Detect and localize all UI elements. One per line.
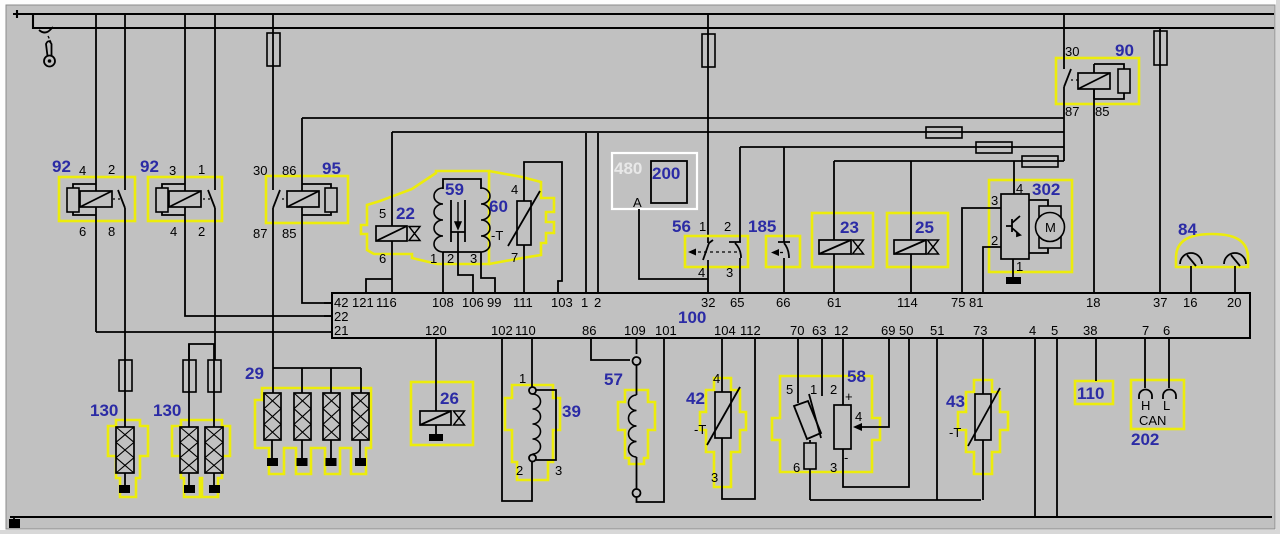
svg-text:3: 3 — [711, 470, 718, 485]
svg-text:4: 4 — [170, 224, 177, 239]
svg-text:86: 86 — [582, 323, 596, 338]
component 42 highlight — [700, 378, 746, 487]
svg-text:3: 3 — [169, 163, 176, 178]
svg-text:56: 56 — [672, 217, 691, 236]
relay 92 (second) highlight — [148, 177, 222, 221]
84 lamp 1 — [1180, 253, 1202, 264]
wire 302 pin2 from ECU pin81 — [983, 247, 1001, 293]
39 coil — [533, 394, 541, 454]
wire 22 feed from rail B — [391, 132, 393, 226]
wire bus 15 (ignition) — [33, 14, 1274, 28]
component 202 highlight — [1131, 380, 1184, 429]
wire jumper to ECU pin 121 — [366, 279, 392, 293]
svg-text:-: - — [844, 450, 848, 465]
svg-text:6: 6 — [79, 224, 86, 239]
svg-text:12: 12 — [834, 323, 848, 338]
wire 43 to ground line — [982, 440, 984, 500]
svg-text:92: 92 — [140, 157, 159, 176]
ECU 100 box — [332, 293, 1250, 338]
58 wiper2 arrow from ECU pin69 — [862, 338, 889, 427]
svg-text:-T: -T — [949, 425, 961, 440]
component group 22/59/60 highlight — [361, 171, 489, 264]
svg-text:38: 38 — [1083, 323, 1097, 338]
wire ECU pin5 to ground bus — [1056, 338, 1058, 517]
wire ECU pin4 to ground bus — [1034, 338, 1036, 517]
connector 200 box — [651, 161, 687, 203]
wire 42 to ECU pin112 — [722, 338, 755, 499]
57 bottom terminal — [633, 489, 641, 497]
svg-text:87: 87 — [1065, 104, 1079, 119]
wire 58 pin6 to ground line — [809, 469, 811, 500]
wire manifold of 29 — [273, 368, 361, 393]
svg-text:37: 37 — [1153, 295, 1167, 310]
svg-text:65: 65 — [730, 295, 744, 310]
wire ECU pin120 to 26 — [435, 338, 437, 411]
svg-text:43: 43 — [946, 392, 965, 411]
svg-text:75: 75 — [951, 295, 965, 310]
CAN L socket — [1163, 390, 1176, 399]
svg-text:2: 2 — [108, 162, 115, 177]
svg-text:4: 4 — [713, 371, 720, 386]
svg-text:4: 4 — [1016, 181, 1023, 196]
wire relay92b switch out pin2 — [214, 208, 216, 344]
relay 90 highlight — [1056, 58, 1139, 104]
ground at 302 — [1006, 277, 1021, 284]
svg-text:1: 1 — [430, 251, 437, 266]
wire split to both plugs — [189, 344, 215, 360]
wire 59 pin3 to ECU pin99 — [481, 252, 495, 293]
302 motor — [1029, 200, 1048, 253]
svg-text:18: 18 — [1086, 295, 1100, 310]
component 130 second highlight — [172, 420, 230, 497]
svg-text:50: 50 — [899, 323, 913, 338]
relay 92a switch contact — [118, 190, 125, 208]
svg-text:M: M — [1045, 220, 1056, 235]
wire 56 pin3 to ECU pin65 — [739, 258, 741, 293]
wire ECU pin109 to 57 top terminal — [636, 338, 638, 354]
relay 95 switch contact — [273, 190, 280, 208]
wire relay92a switch out pin8 — [124, 208, 126, 360]
component 39 highlight — [505, 385, 560, 480]
svg-text:84: 84 — [1178, 220, 1197, 239]
svg-text:42: 42 — [334, 295, 348, 310]
component 25 highlight — [887, 213, 948, 267]
wire sensor ground line to ECU pin51 — [810, 338, 981, 500]
battery plus terminal — [13, 10, 21, 18]
svg-text:73: 73 — [973, 323, 987, 338]
wire 59 pin2 to ECU pin106 — [458, 232, 473, 293]
svg-text:86: 86 — [282, 163, 296, 178]
26 ground — [435, 425, 437, 435]
svg-text:95: 95 — [322, 159, 341, 178]
svg-text:8: 8 — [108, 224, 115, 239]
svg-text:2: 2 — [516, 463, 523, 478]
svg-text:90: 90 — [1115, 41, 1134, 60]
component 29 highlight — [255, 388, 371, 474]
fuse to 130 first — [124, 360, 126, 427]
svg-text:2: 2 — [594, 295, 601, 310]
wire 23 to ECU pin61 — [833, 254, 835, 293]
29 grounds — [272, 440, 360, 459]
wire 57 bottom to ECU pin101 — [637, 338, 665, 502]
svg-text:200: 200 — [652, 164, 680, 183]
56 mechanical link arrow — [688, 249, 696, 256]
connector 480 box — [612, 153, 697, 209]
svg-text:302: 302 — [1032, 180, 1060, 199]
svg-text:69: 69 — [881, 323, 895, 338]
wire rail C (to 56/185) with fuse — [740, 146, 1064, 148]
svg-text:2: 2 — [724, 219, 731, 234]
wire node A to 56/ECU pin32 — [639, 209, 708, 279]
svg-text:51: 51 — [930, 323, 944, 338]
svg-text:1: 1 — [810, 382, 817, 397]
svg-text:6: 6 — [793, 460, 800, 475]
wire relay95 switch out pin87 to glow plugs — [272, 208, 274, 368]
wire 58 pin3 to ECU pin50 — [843, 338, 909, 487]
svg-text:1: 1 — [699, 219, 706, 234]
wire 25 to ECU pin114 — [910, 254, 912, 293]
wire ECU pin63 to 58 pin1 — [821, 338, 823, 396]
svg-text:21: 21 — [334, 323, 348, 338]
svg-text:4: 4 — [79, 163, 86, 178]
svg-text:63: 63 — [812, 323, 826, 338]
56 second contact — [729, 242, 741, 258]
185 switch contact — [778, 242, 790, 258]
svg-text:16: 16 — [1183, 295, 1197, 310]
component 59 windings — [443, 179, 481, 252]
svg-text:87: 87 — [253, 226, 267, 241]
wire rail A (to relay95 coil) — [302, 117, 1064, 119]
wire ECU pin110 to 39 pin1 — [531, 338, 533, 387]
component 302 highlight — [989, 180, 1072, 272]
ECU left stubs pins 42/22 — [324, 303, 332, 316]
relay 95 coil — [287, 191, 319, 207]
29 heater elements — [264, 393, 281, 440]
ground terminal bottom left — [9, 519, 20, 528]
svg-text:H: H — [1141, 398, 1150, 413]
svg-text:1: 1 — [581, 295, 588, 310]
wire relay90 pin87 down to feed rails — [1063, 87, 1065, 161]
wire 25 feed from rail D — [910, 161, 912, 240]
svg-text:3: 3 — [555, 463, 562, 478]
component 43 resistor — [975, 394, 991, 440]
svg-text:109: 109 — [624, 323, 646, 338]
svg-text:110: 110 — [1077, 384, 1104, 403]
component 110 highlight — [1075, 381, 1113, 404]
wire 302 pin4 from rail D — [1013, 161, 1015, 194]
svg-text:61: 61 — [827, 295, 841, 310]
component 84 highlight dome — [1176, 234, 1248, 267]
wire ECU pin38 to 110 — [1095, 338, 1097, 381]
relay 90 switch contact — [1064, 69, 1071, 87]
svg-text:70: 70 — [790, 323, 804, 338]
wire relay95 coil pin86 from rail — [301, 118, 303, 191]
svg-text:7: 7 — [511, 250, 518, 265]
svg-text:85: 85 — [1095, 104, 1109, 119]
svg-text:100: 100 — [678, 308, 706, 327]
130 second grounds — [189, 473, 214, 486]
svg-text:7: 7 — [1142, 323, 1149, 338]
component 43 highlight — [958, 380, 1008, 474]
ignition key switch — [39, 27, 55, 67]
svg-text:92: 92 — [52, 157, 71, 176]
svg-text:3: 3 — [470, 251, 477, 266]
svg-text:6: 6 — [379, 251, 386, 266]
component 130 first highlight — [108, 420, 148, 497]
svg-text:120: 120 — [425, 323, 447, 338]
svg-text:2: 2 — [991, 233, 998, 248]
relay 92a suppression resistor — [73, 184, 96, 215]
svg-text:57: 57 — [604, 370, 623, 389]
wire ECU pin86 to 57 top — [591, 338, 630, 360]
svg-text:99: 99 — [487, 295, 501, 310]
svg-text:110: 110 — [515, 323, 536, 338]
wire relay92a coil to bus pin6 — [95, 207, 97, 332]
svg-text:39: 39 — [562, 402, 581, 421]
58 wiper — [809, 394, 821, 438]
svg-text:130: 130 — [153, 401, 181, 420]
wire 185 to ECU pin66 — [783, 258, 785, 293]
svg-text:26: 26 — [440, 389, 459, 408]
component 56 highlight — [685, 236, 748, 267]
wire 185 feed from rail C — [783, 147, 785, 242]
svg-text:130: 130 — [90, 401, 118, 420]
svg-text:480: 480 — [614, 159, 642, 178]
svg-text:4: 4 — [855, 409, 862, 424]
relay 92 (first) highlight — [59, 177, 135, 221]
svg-text:59: 59 — [445, 180, 464, 199]
wire 84 lamp1 to ECU pin16 — [1190, 266, 1192, 293]
component 23 highlight — [812, 213, 873, 267]
svg-text:85: 85 — [282, 226, 296, 241]
svg-text:81: 81 — [969, 295, 983, 310]
svg-text:-T: -T — [491, 228, 503, 243]
130 first heater element — [116, 427, 134, 473]
svg-text:3: 3 — [991, 193, 998, 208]
svg-text:101: 101 — [655, 323, 677, 338]
svg-text:6: 6 — [1163, 323, 1170, 338]
84 lamp 2 — [1224, 253, 1246, 264]
svg-text:25: 25 — [915, 218, 934, 237]
component 57 highlight — [618, 390, 655, 464]
svg-text:108: 108 — [432, 295, 454, 310]
wire ECU pin73 to 43 — [982, 338, 984, 394]
58 series resistor pin6 — [809, 440, 811, 443]
59 core and arrow — [451, 200, 465, 242]
component 26 highlight — [411, 382, 473, 445]
svg-text:116: 116 — [376, 295, 397, 310]
svg-text:1: 1 — [1016, 259, 1023, 274]
39 bottom terminal — [529, 455, 536, 462]
svg-text:-T: -T — [694, 422, 706, 437]
wire relay90 coil pin85 to ECU pin18 — [1093, 89, 1095, 293]
svg-text:4: 4 — [698, 265, 705, 280]
svg-text:30: 30 — [253, 163, 267, 178]
wire bus ECU pin21 to relays — [96, 331, 332, 333]
svg-text:112: 112 — [740, 323, 761, 338]
svg-text:3: 3 — [726, 265, 733, 280]
svg-text:5: 5 — [1051, 323, 1058, 338]
relay 92b suppression resistor — [162, 184, 185, 215]
svg-text:32: 32 — [701, 295, 715, 310]
relay 90 coil — [1078, 73, 1110, 89]
wire relay92a coil feed pin4 — [95, 14, 97, 191]
CAN H socket — [1139, 390, 1152, 399]
relay 92b switch contact — [208, 190, 215, 208]
svg-text:+: + — [845, 389, 853, 404]
ground bus — [10, 516, 1272, 518]
component 58 highlight — [772, 376, 880, 472]
130 first ground — [124, 473, 126, 486]
58 slanted resistor track — [794, 401, 821, 439]
wire 56 pin4 to ECU pin32 — [707, 260, 709, 293]
svg-text:22: 22 — [396, 204, 415, 223]
relay 92a coil — [80, 191, 112, 207]
wire ECU pin6 to CAN L — [1168, 338, 1170, 388]
wire to ECU pin1 — [585, 133, 587, 293]
svg-text:2: 2 — [830, 382, 837, 397]
185 mechanical link arrow — [771, 249, 779, 256]
svg-text:22: 22 — [334, 309, 348, 324]
wire 22 pin6 to ECU pins 121/116 — [391, 241, 393, 293]
svg-text:2: 2 — [198, 224, 205, 239]
svg-text:5: 5 — [379, 206, 386, 221]
wire 60 loop pin4 from node — [524, 162, 562, 293]
svg-text:185: 185 — [748, 217, 776, 236]
wire rail D (to 23/25/302) with fuse — [834, 160, 1064, 162]
wire rail B (to comp 22) with fuse — [392, 131, 1064, 133]
wire 302 pin1 to ground — [1012, 259, 1014, 277]
302 transistor symbol — [1006, 216, 1020, 236]
svg-text:3: 3 — [830, 460, 837, 475]
component 26 coil — [420, 411, 451, 425]
130 second heater elements — [180, 427, 198, 473]
svg-text:106: 106 — [462, 295, 484, 310]
wire to ECU pin2 — [597, 133, 599, 293]
58 potentiometer 2 — [834, 405, 851, 449]
valve symbol of 22 — [409, 227, 420, 241]
component 22 coil — [376, 226, 407, 241]
fuse on relay95 pin30 feed — [272, 14, 274, 190]
svg-text:CAN: CAN — [1139, 413, 1166, 428]
svg-text:5: 5 — [786, 382, 793, 397]
39 side branch pin3 — [536, 390, 556, 460]
svg-text:42: 42 — [686, 389, 705, 408]
svg-text:114: 114 — [897, 295, 918, 310]
wire relay92b coil pin4 to ECU pin22 — [185, 207, 332, 316]
component 25 coil — [894, 240, 926, 254]
fuses to 130 second — [189, 344, 214, 427]
relay 90 suppression resistor — [1094, 64, 1124, 99]
svg-text:66: 66 — [776, 295, 790, 310]
svg-text:4: 4 — [511, 182, 518, 197]
wire ECU pin70 to 58 pin5 — [797, 338, 799, 403]
svg-text:A: A — [633, 195, 642, 210]
57 coil — [636, 365, 638, 489]
302 transistor box — [1001, 194, 1029, 259]
svg-text:4: 4 — [1029, 323, 1036, 338]
57 top terminal — [633, 357, 641, 365]
wire relay92b coil feed pin3 — [184, 14, 186, 191]
wire ECU pin104 to 42 — [721, 338, 723, 392]
wire relay92a switch pin2 — [124, 14, 126, 190]
wire 23 feed from rail D — [833, 161, 835, 240]
wire fused feed to 56 pin1 — [707, 14, 709, 243]
svg-text:111: 111 — [513, 295, 533, 310]
56 switch arm pin1-4 — [703, 243, 709, 260]
svg-text:23: 23 — [840, 218, 859, 237]
component 23 coil — [819, 240, 851, 254]
svg-text:L: L — [1163, 398, 1170, 413]
wire 302 pin3 from ECU pin75 — [962, 208, 1001, 293]
wire ECU pin7 to CAN H — [1144, 338, 1146, 388]
component 185 highlight — [766, 236, 800, 267]
svg-text:104: 104 — [714, 323, 736, 338]
svg-text:202: 202 — [1131, 430, 1159, 449]
svg-text:58: 58 — [847, 367, 866, 386]
relay 95 suppression resistor — [302, 184, 331, 215]
relay 92b coil — [169, 191, 201, 207]
wire 84 lamp2 to ECU pin20 — [1234, 266, 1236, 293]
component 60 resistor — [517, 201, 531, 245]
wire relay90 pin30 from bus — [1063, 14, 1065, 69]
wire 59 pin1 to ECU pin108 — [442, 252, 444, 293]
svg-text:30: 30 — [1065, 44, 1079, 59]
svg-text:2: 2 — [447, 251, 454, 266]
wire bus 30 (battery) — [21, 13, 1274, 15]
svg-text:1: 1 — [198, 162, 205, 177]
svg-text:103: 103 — [551, 295, 573, 310]
wire 39 pin2 to ECU pin102 — [502, 338, 532, 501]
fuse wire to ECU pin37 — [1159, 28, 1161, 293]
wire relay92b switch pin1 — [214, 14, 216, 190]
wire ECU pin12 to 58 pin2 — [842, 338, 844, 405]
svg-text:1: 1 — [519, 371, 526, 386]
svg-text:102: 102 — [491, 323, 513, 338]
39 top terminal — [529, 387, 536, 394]
wire 60 pin7 to ECU pin111 — [523, 245, 525, 293]
svg-text:121: 121 — [352, 295, 374, 310]
svg-text:60: 60 — [489, 197, 508, 216]
svg-text:29: 29 — [245, 364, 264, 383]
component 42 resistor — [715, 392, 731, 438]
svg-text:20: 20 — [1227, 295, 1241, 310]
wire relay95 coil pin85 to ECU pin42 — [302, 207, 332, 303]
relay 95 highlight — [266, 176, 348, 223]
wire 56 pin2 from rail C — [739, 147, 741, 242]
